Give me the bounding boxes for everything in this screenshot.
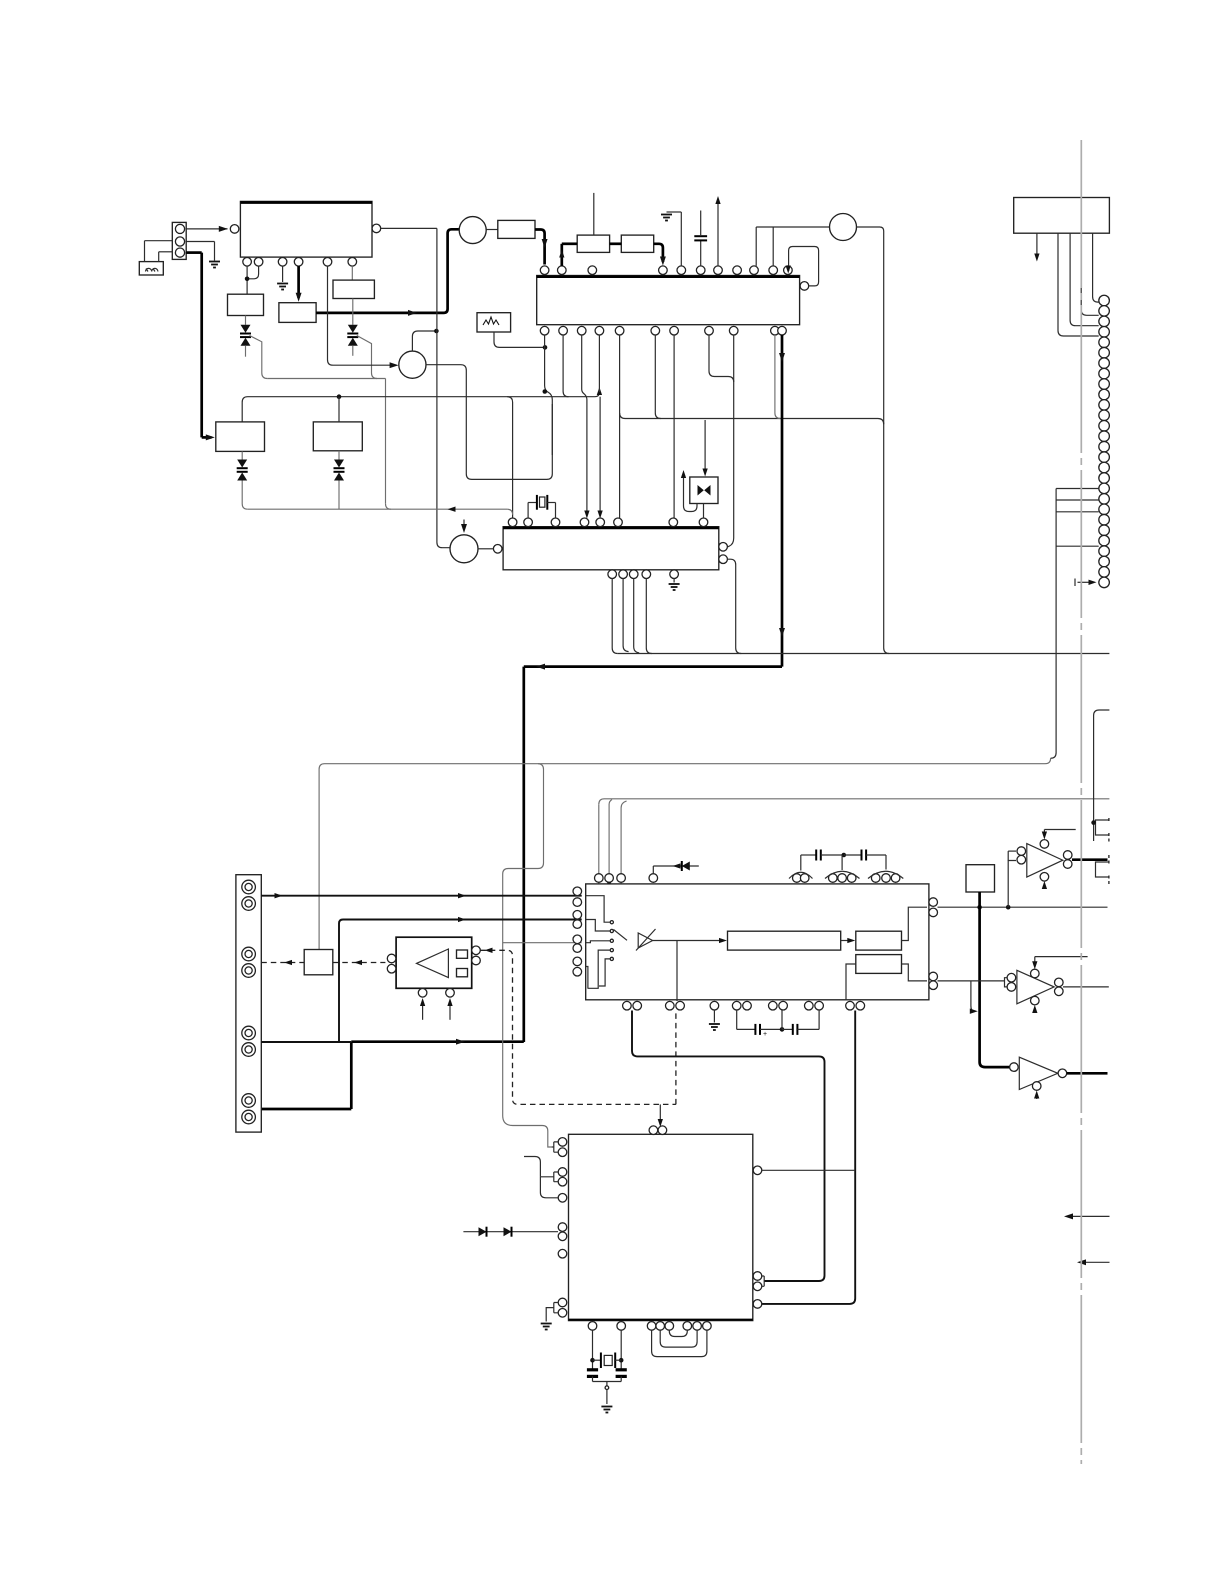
svg-text:+: + [763,1031,767,1038]
